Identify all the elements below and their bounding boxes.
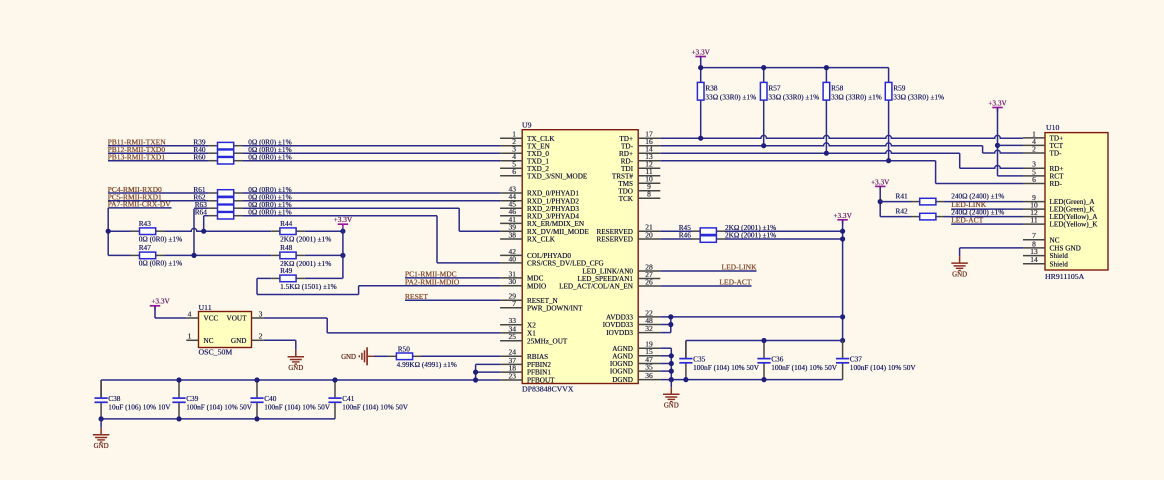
resistor R61 bbox=[209, 192, 218, 194]
svg-text:1.5KΩ (1501) ±1%: 1.5KΩ (1501) ±1% bbox=[280, 282, 337, 291]
wire to R42 bbox=[880, 216, 911, 218]
junction C38 bottom / GND drop bbox=[99, 416, 104, 421]
svg-text:U9: U9 bbox=[522, 121, 532, 130]
svg-text:30: 30 bbox=[509, 277, 517, 286]
svg-text:100nF (104) 10% 50V: 100nF (104) 10% 50V bbox=[771, 363, 838, 372]
wire RD- to U10 pin6 bbox=[936, 183, 1023, 185]
svg-text:X1: X1 bbox=[527, 330, 536, 338]
wire LED-ACT to U10 pin11 bbox=[951, 223, 1023, 225]
U9 pin 34 X1 bbox=[500, 332, 522, 334]
svg-text:IOVDD33: IOVDD33 bbox=[603, 321, 634, 329]
wire IOGND pin35 bbox=[660, 370, 671, 372]
U9 pin 44 RXD_1/PHYAD2 bbox=[500, 200, 522, 202]
junction TCT bbox=[995, 143, 1000, 148]
U10 pin 10 LED(Green)_K bbox=[1023, 208, 1045, 210]
U10 pin 9 LED(Green)_A bbox=[1023, 201, 1045, 203]
U11 pin 4 VCC bbox=[186, 317, 198, 319]
svg-text:+3.3V: +3.3V bbox=[334, 215, 353, 224]
junction AVDD tie top bbox=[668, 314, 673, 319]
wire R44 out to +3.3V rail bbox=[305, 230, 343, 232]
resistor R49 bbox=[271, 277, 280, 279]
wire R49 bottom run toward MDIO bbox=[257, 294, 359, 296]
wire R59 top lead bbox=[888, 68, 890, 83]
wire PA7 vertical to R47 left bbox=[108, 254, 131, 256]
U10 pin 8 CHS GND bbox=[1023, 247, 1045, 249]
wire to R41 bbox=[880, 201, 911, 203]
svg-text:R49: R49 bbox=[280, 266, 293, 275]
U9 pin 18 PFBIN1 bbox=[500, 371, 522, 373]
wire GND to R50 bbox=[374, 355, 388, 357]
svg-text:DP83848CVVX: DP83848CVVX bbox=[522, 384, 574, 393]
svg-text:R47: R47 bbox=[139, 243, 152, 252]
resistor R60 bbox=[209, 160, 218, 162]
junction R63 input on R47 row bbox=[191, 253, 196, 258]
junction C35 bottom bbox=[683, 377, 688, 382]
resistor R43 bbox=[131, 230, 140, 232]
wire PA7-RMII-CRX-DV stub bbox=[108, 207, 171, 209]
U9 pin 3 TXD_0 bbox=[500, 152, 522, 154]
wire R63 input from vertical bbox=[194, 207, 209, 209]
wire GND drop below C38 bbox=[100, 419, 102, 428]
svg-text:2: 2 bbox=[1032, 144, 1036, 153]
svg-text:R41: R41 bbox=[896, 191, 909, 200]
U9 pin 38 RX_CLK bbox=[500, 238, 522, 240]
U9 pin 29 RESET_N bbox=[500, 299, 522, 301]
junction IOGND tie 2 bbox=[669, 369, 674, 374]
wire PB12-RMII-TXD0 to R40 bbox=[108, 152, 209, 154]
resistor R57 bbox=[760, 82, 767, 100]
svg-text:+3.3V: +3.3V bbox=[871, 177, 890, 186]
junction rail at R38 bbox=[698, 65, 703, 70]
resistor R63 bbox=[209, 207, 218, 209]
svg-text:TD-: TD- bbox=[1050, 150, 1063, 158]
resistor R45 bbox=[692, 230, 701, 232]
wire R64 out bbox=[242, 215, 437, 217]
U9 pin 13 RD- bbox=[638, 160, 660, 162]
capacitor C36 bbox=[763, 341, 765, 358]
svg-text:PA2-RMII-MDIO: PA2-RMII-MDIO bbox=[405, 277, 460, 286]
svg-text:14: 14 bbox=[1030, 255, 1038, 264]
svg-text:100nF (104) 10% 50V: 100nF (104) 10% 50V bbox=[693, 363, 760, 372]
wire R60 to U9 bbox=[242, 160, 500, 162]
U9 pin 40 CRS/CRS_DV/LED_CFG bbox=[500, 262, 522, 264]
IC U9 DP83848CVVX body bbox=[522, 130, 638, 384]
svg-text:+3.3V: +3.3V bbox=[151, 296, 170, 305]
U10 pin 12 LED(Yellow)_A bbox=[1023, 216, 1045, 218]
wire up to MDIO row bbox=[358, 286, 360, 295]
junction R44 out at +3.3V bbox=[340, 229, 345, 234]
U11 pin 2 GND bbox=[252, 339, 264, 341]
wire to U9 pin 18 PFBIN1 bbox=[476, 371, 501, 373]
junction DGND tie bbox=[669, 377, 674, 382]
U11 pin 3 VOUT bbox=[252, 317, 264, 319]
wire R47 out to R48 bbox=[164, 254, 271, 256]
wire R63 input vertical down to R47 row bbox=[193, 209, 195, 256]
U9 pin 42 COL/PHYAD0 bbox=[500, 254, 522, 256]
svg-text:GND: GND bbox=[231, 337, 247, 345]
wire R59 bottom lead to RD- bbox=[888, 100, 890, 161]
U9 pin 39 RX_DV/MII_MODE bbox=[500, 230, 522, 232]
wire U11 VOUT out bbox=[264, 317, 328, 319]
wire RCT to U10 pin5 bbox=[998, 175, 1024, 177]
wire R64 jog down to CRS_DV row bbox=[436, 216, 438, 263]
svg-text:Shield: Shield bbox=[1050, 260, 1069, 268]
junction PA7/R43 bbox=[106, 229, 111, 234]
svg-text:23: 23 bbox=[509, 371, 517, 380]
svg-text:TXD_3/SNI_MODE: TXD_3/SNI_MODE bbox=[527, 172, 588, 180]
junction R58 on RD+ bbox=[824, 151, 829, 156]
U9 pin 24 RBIAS bbox=[500, 355, 522, 357]
U10 pin 6 RD- bbox=[1023, 183, 1045, 185]
svg-text:R43: R43 bbox=[139, 219, 152, 228]
wire cap top rail C35-C37 bbox=[686, 340, 843, 342]
wire to U9 pin 39 bbox=[459, 230, 500, 232]
junction R64 input on R43 row bbox=[201, 229, 206, 234]
svg-text:PFBOUT: PFBOUT bbox=[527, 377, 555, 385]
wire U9 pin26 LED-ACT bbox=[660, 285, 751, 287]
wire +3.3V vertical to cap rail bbox=[842, 220, 844, 341]
junction R41 feed bbox=[878, 199, 883, 204]
wire DGND row to caps bbox=[660, 379, 842, 381]
svg-text:VOUT: VOUT bbox=[227, 315, 248, 323]
junction PFBOUT rail tie bbox=[473, 377, 478, 382]
svg-text:6: 6 bbox=[512, 167, 516, 176]
wire GND drop bbox=[670, 380, 672, 388]
svg-text:PWR_DOWN/INT: PWR_DOWN/INT bbox=[527, 304, 583, 312]
junction AGND tie bbox=[669, 353, 674, 358]
svg-text:40: 40 bbox=[509, 254, 517, 263]
wire +3.3V vertical to RCT bbox=[997, 108, 999, 176]
junction R57 on TD- bbox=[761, 143, 766, 148]
U9 pin 1 TX_CLK bbox=[500, 137, 522, 139]
U9 pin 28 LED_LINK/AN0 bbox=[638, 270, 660, 272]
wire MDC to U9 pin 31 bbox=[405, 277, 500, 279]
wire PC5-RMII-RXD1 to R62 bbox=[108, 200, 209, 202]
U9 pin 43 RXD_0/PHYAD1 bbox=[500, 192, 522, 194]
U9 pin 17 TD+ bbox=[638, 137, 660, 139]
wire AGND pin19 bbox=[660, 347, 671, 349]
svg-text:RESET: RESET bbox=[405, 292, 428, 301]
wire RD- jog down bbox=[935, 161, 937, 184]
wire R48 out to +3.3V rail bbox=[305, 254, 343, 256]
svg-text:RX_DV/MII_MODE: RX_DV/MII_MODE bbox=[527, 228, 590, 236]
svg-text:100nF (104) 10% 50V: 100nF (104) 10% 50V bbox=[264, 402, 331, 411]
svg-text:100nF (104) 10% 50V: 100nF (104) 10% 50V bbox=[850, 363, 917, 372]
junction cap top rail bbox=[332, 377, 337, 382]
U9 pin 19 AGND bbox=[638, 347, 660, 349]
wire PB13-RMII-TXD1 to R60 bbox=[108, 160, 209, 162]
svg-text:R50: R50 bbox=[398, 344, 411, 353]
svg-text:MDIO: MDIO bbox=[527, 282, 546, 290]
svg-text:20: 20 bbox=[645, 230, 653, 239]
svg-text:RX_CLK: RX_CLK bbox=[527, 236, 556, 244]
wire TD- from U9 pin16 bbox=[660, 143, 982, 146]
wire RD+ jog down bbox=[959, 153, 961, 168]
wire R63 jog down to RX_DV row bbox=[458, 208, 460, 231]
wire IOVDD3 pin32 bbox=[660, 332, 671, 334]
wire R57 top lead bbox=[763, 68, 765, 83]
wire R43 out to R44 bbox=[164, 228, 271, 231]
wire R62 to U9 pin 44 bbox=[242, 200, 500, 202]
junction R48 out at +3.3V bbox=[340, 253, 345, 258]
U9 pin 45 RXD_2/PHYAD3 bbox=[500, 207, 522, 209]
wire CHS GND from U10 pin8 bbox=[960, 247, 1023, 249]
U9 pin 5 TXD_2 bbox=[500, 167, 522, 169]
U9 pin 20 RESERVED bbox=[638, 238, 660, 240]
junction R46 bbox=[840, 236, 845, 241]
svg-text:GND: GND bbox=[341, 354, 356, 361]
svg-text:R60: R60 bbox=[193, 153, 206, 162]
oscillator U11 OSC_50M body bbox=[199, 312, 252, 348]
junction C36 top bbox=[761, 338, 766, 343]
svg-text:R58: R58 bbox=[831, 83, 844, 92]
svg-text:RESERVED: RESERVED bbox=[596, 236, 633, 244]
wire U9 pin28 LED-LINK bbox=[660, 270, 756, 272]
svg-text:10uF (106) 10% 10V: 10uF (106) 10% 10V bbox=[108, 402, 171, 411]
svg-text:36: 36 bbox=[645, 371, 653, 380]
connector U10 HR911105A body bbox=[1045, 133, 1108, 270]
junction cap bottom rail bbox=[254, 416, 259, 421]
U9 pin 31 MDC bbox=[500, 277, 522, 279]
svg-text:33Ω (33R0) ±1%: 33Ω (33R0) ±1% bbox=[831, 93, 882, 102]
wire RESET to U9 pin 29 bbox=[405, 299, 500, 301]
resistor R58 bbox=[823, 82, 830, 100]
wire RD+ from U9 pin14 bbox=[660, 150, 959, 153]
svg-text:4.99KΩ (4991) ±1%: 4.99KΩ (4991) ±1% bbox=[397, 360, 457, 369]
svg-text:RBIAS: RBIAS bbox=[527, 353, 548, 361]
wire R38 bottom lead to TD+ bbox=[700, 100, 702, 138]
wire TD+ U9 pin17 to U10 pin1 bbox=[660, 135, 1023, 138]
svg-text:GND: GND bbox=[664, 402, 679, 409]
svg-text:GND: GND bbox=[288, 365, 303, 372]
U10 pin 13 Shield bbox=[1023, 255, 1045, 257]
resistor R46 bbox=[692, 238, 701, 240]
svg-text:3: 3 bbox=[259, 309, 263, 318]
svg-text:6: 6 bbox=[1032, 175, 1036, 184]
U9 pin 15 AGND bbox=[638, 355, 660, 357]
wire R57 bottom lead to TD- bbox=[763, 100, 765, 146]
wire AGND pin15 bbox=[660, 355, 671, 357]
U9 pin 2 TX_EN bbox=[500, 145, 522, 147]
wire AVDD33 row to +3.3V vertical bbox=[660, 316, 842, 318]
capacitor C38 bbox=[100, 380, 102, 397]
wire R46 out to +3.3V vertical bbox=[725, 238, 843, 240]
svg-text:100nF (104) 10% 50V: 100nF (104) 10% 50V bbox=[342, 402, 409, 411]
resistor R48 bbox=[271, 254, 280, 256]
U9 pin 8 TCK bbox=[638, 197, 660, 199]
U9 pin 37 PFBIN2 bbox=[500, 363, 522, 365]
U9 pin 35 IOGND bbox=[638, 370, 660, 372]
wire +3.3V down through R41 row to R42 row bbox=[879, 186, 881, 216]
wire TD- jog down bbox=[982, 146, 984, 153]
U9 pin 10 TMS bbox=[638, 182, 660, 184]
U9 pin 47 IOGND bbox=[638, 363, 660, 365]
capacitor C41 bbox=[334, 380, 336, 397]
junction cap top rail bbox=[176, 377, 181, 382]
svg-text:8: 8 bbox=[647, 190, 651, 199]
svg-text:RD-: RD- bbox=[1050, 180, 1063, 188]
U9 pin 30 MDIO bbox=[500, 285, 522, 287]
capacitor C35 bbox=[685, 341, 687, 358]
wire U9 pin20 to R46 bbox=[660, 238, 692, 240]
U9 pin 32 IOVDD3 bbox=[638, 332, 660, 334]
svg-text:DGND: DGND bbox=[612, 376, 633, 384]
wire to U9 pin 37 PFBIN2 bbox=[476, 363, 501, 365]
svg-text:TCK: TCK bbox=[619, 195, 634, 203]
junction rail at R57 bbox=[761, 65, 766, 70]
capacitor C37 bbox=[842, 341, 844, 358]
U9 pin 16 TD- bbox=[638, 145, 660, 147]
U9 pin 27 LED_SPEED/AN1 bbox=[638, 278, 660, 280]
wire to U9 pin 40 bbox=[437, 262, 500, 264]
svg-text:LED(Yellow)_K: LED(Yellow)_K bbox=[1050, 221, 1099, 229]
svg-text:25MHz_OUT: 25MHz_OUT bbox=[527, 337, 568, 345]
ground U11 bbox=[295, 350, 297, 357]
svg-text:NC: NC bbox=[1050, 236, 1060, 244]
wire PFB tie vertical bbox=[475, 364, 477, 380]
svg-text:VCC: VCC bbox=[204, 315, 219, 323]
svg-text:RXD_0/PHYAD1: RXD_0/PHYAD1 bbox=[527, 190, 579, 198]
svg-text:33Ω (33R0) ±1%: 33Ω (33R0) ±1% bbox=[768, 93, 819, 102]
wire U11 pin2 to GND bbox=[264, 339, 296, 341]
wire R64 input short bbox=[204, 215, 209, 217]
U9 pin 14 RD+ bbox=[638, 152, 660, 154]
wire IOVDD33 pin48 bbox=[660, 324, 671, 326]
resistor R42 bbox=[911, 216, 920, 218]
svg-text:25: 25 bbox=[509, 332, 517, 341]
resistor R41 bbox=[911, 201, 920, 203]
wire R58 top lead bbox=[825, 68, 827, 83]
junction rail at R58 bbox=[824, 65, 829, 70]
U9 pin 23 PFBOUT bbox=[500, 379, 522, 381]
wire RD+ to U10 pin3 bbox=[960, 166, 1023, 169]
wire RD- from U9 pin13 bbox=[660, 160, 935, 162]
U9 pin 46 RXD_3/PHYAD4 bbox=[500, 215, 522, 217]
wire R49 left lead bbox=[257, 277, 271, 279]
wire R61 to U9 pin 43 bbox=[242, 192, 500, 194]
wire IOVDD tie vertical bbox=[670, 317, 672, 333]
junction IOGND tie bbox=[669, 361, 674, 366]
U10 pin 3 RD+ bbox=[1023, 167, 1045, 169]
resistor R38 bbox=[697, 82, 704, 100]
U10 pin 11 LED(Yellow)_K bbox=[1023, 223, 1045, 225]
wire U9 pin21 to R45 bbox=[660, 230, 692, 232]
wire C35 top lead from rail corner bbox=[685, 341, 687, 359]
svg-text:+3.3V: +3.3V bbox=[833, 211, 852, 220]
svg-text:PFBIN1: PFBIN1 bbox=[527, 369, 551, 377]
svg-text:R48: R48 bbox=[280, 243, 293, 252]
wire LED-LINK to U10 pin10 bbox=[951, 208, 1023, 210]
svg-text:33Ω (33R0) ±1%: 33Ω (33R0) ±1% bbox=[705, 93, 756, 102]
svg-text:+3.3V: +3.3V bbox=[691, 48, 710, 57]
junction cap top rail bbox=[840, 338, 845, 343]
wire to U11 pin 4 VCC bbox=[155, 317, 186, 319]
svg-text:RESERVED: RESERVED bbox=[596, 228, 633, 236]
svg-text:38: 38 bbox=[509, 230, 517, 239]
wire C38 top lead segment bbox=[100, 380, 102, 398]
wire R42 to U10 pin12 bbox=[944, 216, 1023, 218]
resistor R50 bbox=[388, 355, 397, 357]
U9 pin 6 TXD_3/SNI_MODE bbox=[500, 175, 522, 177]
junction IOVDD33 tie bbox=[668, 322, 673, 327]
U10 pin 14 Shield bbox=[1023, 263, 1045, 265]
wire R38 top lead bbox=[700, 68, 702, 83]
wire R49 left down bbox=[256, 278, 258, 294]
svg-text:LED_ACT/COL/AN_EN: LED_ACT/COL/AN_EN bbox=[559, 283, 634, 291]
svg-text:+3.3V: +3.3V bbox=[988, 99, 1007, 108]
U9 pin 7 PWR_DOWN/INT bbox=[500, 307, 522, 309]
wire R39 to U9 bbox=[242, 145, 500, 147]
U11 pin 1 NC bbox=[186, 339, 198, 341]
wire PFBOUT rail row bbox=[101, 379, 500, 381]
svg-text:32: 32 bbox=[645, 324, 653, 333]
svg-text:R46: R46 bbox=[679, 231, 692, 240]
U9 pin 41 RX_ER/MDIX_EN bbox=[500, 222, 522, 224]
svg-text:R57: R57 bbox=[768, 83, 781, 92]
U10 pin 5 RCT bbox=[1023, 175, 1045, 177]
wire PC4-RMII-RXD0 to R61 bbox=[108, 192, 209, 194]
svg-text:26: 26 bbox=[645, 277, 653, 286]
svg-text:OSC_50M: OSC_50M bbox=[199, 347, 233, 356]
junction R45 bbox=[840, 229, 845, 234]
U9 pin 25 25MHz_OUT bbox=[500, 340, 522, 342]
svg-text:LED-ACT: LED-ACT bbox=[951, 215, 983, 224]
U10 pin 7 NC bbox=[1023, 239, 1045, 241]
svg-text:NC: NC bbox=[204, 337, 214, 345]
junction PFBIN1 tie bbox=[473, 370, 478, 375]
U9 pin 11 TRST# bbox=[638, 175, 660, 177]
svg-text:IOVDD3: IOVDD3 bbox=[606, 329, 633, 337]
U9 pin 12 TDI bbox=[638, 167, 660, 169]
wire terminator top rail bbox=[701, 67, 889, 69]
svg-text:HR911105A: HR911105A bbox=[1045, 272, 1085, 281]
svg-text:33Ω (33R0) ±1%: 33Ω (33R0) ±1% bbox=[893, 93, 944, 102]
U10 pin 1 TD+ bbox=[1023, 137, 1045, 139]
resistor R59 bbox=[885, 82, 892, 100]
svg-text:U11: U11 bbox=[199, 303, 212, 312]
svg-text:4: 4 bbox=[188, 309, 192, 318]
wire R40 to U9 bbox=[242, 152, 500, 154]
wire IOGND pin47 bbox=[660, 363, 671, 365]
U9 pin 21 RESERVED bbox=[638, 230, 660, 232]
wire TCT to U10 pin4 bbox=[998, 144, 1024, 146]
U9 pin 33 X2 bbox=[500, 324, 522, 326]
wire PA7 vertical to R43 left bbox=[108, 230, 131, 232]
svg-text:7: 7 bbox=[512, 299, 516, 308]
capacitor C40 bbox=[256, 380, 258, 397]
junction R38 on TD+ bbox=[698, 136, 703, 141]
resistor R64 bbox=[209, 215, 218, 217]
junction AVDD33 row bbox=[840, 314, 845, 319]
U9 pin 26 LED_ACT/COL/AN_EN bbox=[638, 285, 660, 287]
wire down to ground bbox=[295, 340, 297, 349]
resistor R44 bbox=[271, 230, 280, 232]
wire +3.3V stub to rail bbox=[700, 57, 702, 68]
wire R64 input vertical down to R43 row bbox=[203, 216, 205, 232]
svg-text:MDC: MDC bbox=[527, 275, 544, 283]
wire VOUT jog down bbox=[326, 318, 328, 333]
wire R49 right to +3.3V vertical bbox=[305, 277, 343, 279]
U9 pin 22 AVDD33 bbox=[638, 316, 660, 318]
wire R45 out to +3.3V vertical bbox=[725, 230, 843, 232]
svg-text:GND: GND bbox=[952, 271, 967, 278]
svg-text:RX_ER/MDIX_EN: RX_ER/MDIX_EN bbox=[527, 220, 585, 228]
U9 pin 9 TDO bbox=[638, 190, 660, 192]
junction C36 bottom bbox=[761, 377, 766, 382]
svg-text:R44: R44 bbox=[280, 219, 293, 228]
wire R63 out bbox=[242, 207, 459, 209]
svg-text:R38: R38 bbox=[705, 83, 718, 92]
